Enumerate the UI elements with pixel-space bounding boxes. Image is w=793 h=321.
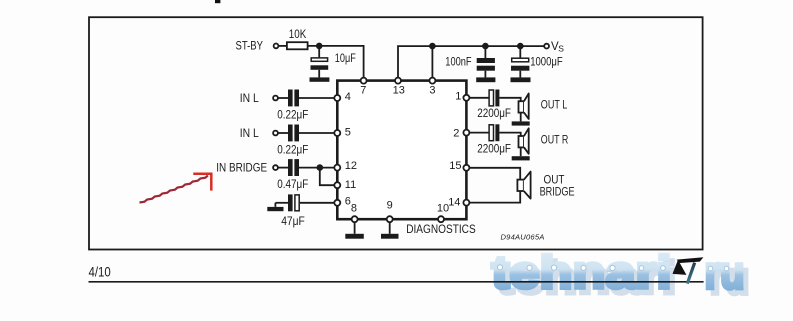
capacitor C1 10uF (311, 46, 329, 78)
svg-text:4/10: 4/10 (89, 264, 112, 279)
wire pin 15 to speaker LS3 top (470, 168, 520, 180)
svg-text:14: 14 (448, 196, 460, 208)
svg-text:1: 1 (455, 90, 461, 102)
capacitor C9 2200uF (489, 124, 499, 141)
label IN L (row 1) (240, 93, 260, 105)
terminal IN L row1 (273, 96, 278, 101)
svg-text:2200μF: 2200μF (477, 108, 511, 120)
label DIAGNOSTICS (406, 224, 476, 236)
wire VS rail with pin13 and pin3 risers (398, 46, 544, 77)
label ST-BY (236, 41, 264, 53)
junction pin3 riser on VS rail (429, 43, 436, 50)
ground below pin 8 (345, 223, 364, 239)
wire pin 2 to C9 (470, 132, 489, 134)
terminal VS supply (544, 44, 549, 49)
pin 4 (334, 91, 351, 103)
svg-text:10: 10 (437, 203, 449, 215)
svg-text:12: 12 (345, 160, 357, 172)
ST logo (SGS-Thomson) bottom right (673, 257, 704, 283)
svg-text:10K: 10K (289, 29, 307, 41)
svg-text:OUT: OUT (544, 174, 565, 186)
pin 2 (453, 127, 469, 139)
capacitor C6 0.47uF (288, 159, 299, 176)
ground at C7 (267, 203, 283, 211)
value label 2200uF row1 (477, 108, 511, 120)
svg-text:2200μF: 2200μF (477, 143, 511, 155)
capacitor C4 0.22uF (288, 90, 299, 107)
svg-text:15: 15 (449, 160, 461, 172)
wire C8 to speaker LS1 (499, 98, 520, 101)
speaker LS2 OUT R (519, 128, 529, 154)
svg-text:9: 9 (387, 200, 393, 212)
wire C6 to pin 12 (299, 167, 334, 169)
svg-text:OUT L: OUT L (541, 100, 568, 112)
wire bridge node to pin 11 (320, 168, 334, 186)
wire terminal to R1 (279, 45, 287, 47)
svg-text:47μF: 47μF (281, 216, 305, 228)
value label 10K (289, 29, 307, 41)
label page number 4/10 (89, 264, 112, 279)
wire ground to C7 (275, 202, 288, 204)
svg-text:13: 13 (393, 84, 405, 96)
svg-text:ru: ru (705, 246, 745, 298)
ground below C2 (476, 77, 495, 82)
svg-text:D94AU065A: D94AU065A (501, 232, 545, 241)
label IN L (row 2) (240, 128, 260, 140)
svg-text:IN L: IN L (240, 128, 260, 140)
capacitor C5 0.22uF (288, 125, 299, 142)
value label 0.22uF row1 (277, 110, 308, 122)
value label 10uF (335, 53, 356, 65)
svg-text:tehnari: tehnari (492, 246, 672, 298)
capacitor C2 100nF (477, 46, 495, 77)
svg-text:10μF: 10μF (335, 53, 356, 65)
wire pin 1 to C8 (470, 97, 489, 99)
pin 3 (429, 78, 435, 97)
ground below LS2 (512, 147, 530, 160)
svg-text:2: 2 (453, 127, 459, 139)
capacitor C7 47uF (288, 194, 299, 211)
wire terminal to C5 (278, 132, 288, 134)
watermark tehnari letters (492, 246, 745, 298)
svg-text:DIAGNOSTICS: DIAGNOSTICS (406, 224, 476, 236)
svg-text:4: 4 (345, 91, 351, 103)
terminal IN BRIDGE (273, 165, 278, 170)
ground below pin 9 (381, 223, 399, 239)
ground below C3 (511, 77, 531, 82)
value label 2200uF row2 (477, 143, 511, 155)
svg-text:0.22μF: 0.22μF (277, 110, 308, 122)
label VS (551, 41, 564, 54)
label OUT BRIDGE (540, 174, 575, 198)
pin 1 (455, 90, 469, 102)
svg-text:OUT R: OUT R (541, 134, 569, 146)
schematic frame border (89, 17, 703, 249)
svg-text:IN L: IN L (240, 93, 260, 105)
terminal IN L row2 (273, 131, 278, 136)
watermark rivet holes (497, 265, 728, 271)
svg-text:100nF: 100nF (445, 56, 471, 68)
junction bridge input node (317, 164, 324, 171)
value label 0.47uF (277, 179, 308, 191)
pin 12 (334, 160, 357, 172)
pin 11 (334, 179, 356, 191)
svg-text:0.47μF: 0.47μF (277, 179, 308, 191)
wire C5 to pin 5 (299, 132, 334, 134)
value label 0.22uF row2 (277, 145, 308, 157)
wire terminal to C6 (278, 167, 288, 169)
wire terminal to C4 (278, 97, 288, 99)
label IN BRIDGE (216, 163, 267, 175)
junction C3 tap on VS rail (517, 43, 524, 50)
value label 47uF (281, 216, 305, 228)
terminal ST-BY input (274, 44, 279, 49)
pin 5 (334, 126, 351, 138)
svg-text:1000μF: 1000μF (530, 56, 563, 68)
svg-text:5: 5 (345, 126, 351, 138)
wire C7 to pin 6 (300, 202, 334, 204)
label OUT R (541, 134, 569, 146)
speaker LS1 OUT L (519, 94, 529, 120)
wire R1 to pin 7 riser (308, 46, 364, 77)
svg-text:IN BRIDGE: IN BRIDGE (216, 163, 267, 175)
pin 15 (449, 160, 469, 172)
svg-text:0.22μF: 0.22μF (277, 145, 308, 157)
capacitor C8 2200uF (489, 90, 499, 107)
pin 6 (334, 196, 351, 208)
svg-text:S: S (558, 44, 564, 54)
speaker LS3 OUT BRIDGE (517, 172, 530, 199)
label OUT L (541, 100, 568, 112)
red annotation arrow pointing at IN BRIDGE (140, 174, 212, 203)
svg-text:3: 3 (429, 84, 435, 96)
value label 100nF (445, 56, 471, 68)
IC U1 TDA7375 outline (337, 81, 466, 220)
svg-text:ST-BY: ST-BY (236, 41, 264, 53)
wire speaker LS3 bottom to pin 14 (470, 191, 520, 203)
junction C2 tap on VS rail (482, 43, 489, 50)
svg-text:8: 8 (351, 203, 357, 215)
svg-text:7: 7 (360, 84, 366, 96)
pin 8 (351, 203, 358, 223)
wire C4 to pin 4 (299, 97, 334, 99)
pin 10 (437, 203, 449, 223)
footer rule (89, 281, 704, 283)
cropped text fragment at page top edge (215, 0, 220, 3)
resistor R1 10K (287, 42, 308, 49)
wire C9 to speaker LS2 (499, 133, 520, 136)
pin 14 (448, 196, 469, 208)
ground below LS1 (512, 113, 530, 126)
capacitor C3 1000uF (511, 46, 529, 77)
label D94AU065A (501, 232, 545, 241)
watermark tehnari.ru shadow (497, 252, 750, 304)
pin 13 (393, 78, 405, 97)
svg-text:BRIDGE: BRIDGE (540, 186, 575, 198)
value label 1000uF (530, 56, 563, 68)
pin 9 (387, 200, 393, 223)
junction ST-BY node (316, 43, 323, 50)
ground below C1 (310, 77, 330, 81)
pin 7 (360, 78, 366, 97)
svg-text:11: 11 (345, 179, 356, 191)
